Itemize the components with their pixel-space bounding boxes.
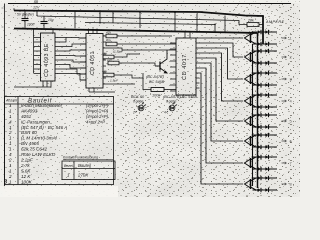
svg-text:1: 1 xyxy=(9,179,12,184)
svg-text:(4×pol·2×P): (4×pol·2×P) xyxy=(86,103,109,108)
svg-text:1: 1 xyxy=(9,109,12,114)
svg-text:6 gelbe: 6 gelbe xyxy=(133,100,144,104)
svg-text:(4×pol·2×P): (4×pol·2×P) xyxy=(86,109,109,114)
svg-text:(4×pol·2×P): (4×pol·2×P) xyxy=(86,114,109,119)
svg-text:CD 4017: CD 4017 xyxy=(182,54,188,80)
svg-text:2: 2 xyxy=(8,130,12,135)
svg-text:(BC 547B) BC 546B: (BC 547B) BC 546B xyxy=(163,95,197,99)
svg-text:4×pol 2×P: 4×pol 2×P xyxy=(86,119,105,124)
svg-text:Kontakt/Funkentstörung: Kontakt/Funkentstörung xyxy=(63,156,98,160)
svg-text:12V: 12V xyxy=(33,6,40,10)
svg-text:12 K: 12 K xyxy=(21,174,31,179)
svg-text:AK4093: AK4093 xyxy=(20,109,38,114)
svg-text:47k: 47k xyxy=(106,39,111,43)
svg-text:1: 1 xyxy=(9,163,12,168)
svg-text:270K: 270K xyxy=(77,173,89,178)
svg-text:1: 1 xyxy=(9,141,12,146)
svg-text:4: 4 xyxy=(164,111,166,115)
svg-text:47k: 47k xyxy=(106,31,111,35)
svg-text:62k,75 C642: 62k,75 C642 xyxy=(21,147,47,152)
svg-text:Bezei.: Bezei. xyxy=(64,164,74,168)
svg-text:(1,5)µF: (1,5)µF xyxy=(113,50,124,54)
svg-text:BN 4505: BN 4505 xyxy=(21,141,39,146)
svg-text:5,6K: 5,6K xyxy=(21,168,31,173)
svg-text:10µ: 10µ xyxy=(48,18,54,22)
svg-text:56k: 56k xyxy=(102,52,107,56)
svg-text:1: 1 xyxy=(9,125,12,130)
svg-text:Bauteil: Bauteil xyxy=(78,163,92,168)
svg-text:5V (Regler): 5V (Regler) xyxy=(17,12,34,16)
svg-text:2: 2 xyxy=(132,111,135,115)
svg-text:100n: 100n xyxy=(27,23,35,27)
svg-text:1,5µF: 1,5µF xyxy=(110,79,119,83)
svg-text:4051: 4051 xyxy=(21,114,32,119)
svg-text:1: 1 xyxy=(9,136,12,141)
svg-text:47k: 47k xyxy=(102,70,107,74)
svg-text:100k: 100k xyxy=(152,94,161,98)
svg-text:8-fach Mäuseklavier: 8-fach Mäuseklavier xyxy=(21,103,63,108)
svg-text:6 gelbe: 6 gelbe xyxy=(166,100,177,104)
svg-text:1: 1 xyxy=(9,168,12,173)
svg-text:2,2µF: 2,2µF xyxy=(20,158,34,163)
svg-text:1: 1 xyxy=(9,103,12,108)
svg-text:100K: 100K xyxy=(21,179,33,184)
svg-text:(BC 547B): (BC 547B) xyxy=(146,75,164,79)
svg-text:22k: 22k xyxy=(106,58,112,62)
svg-text:Anzahl: Anzahl xyxy=(5,99,17,103)
svg-text:3: 3 xyxy=(4,180,7,186)
svg-text:2: 2 xyxy=(8,158,12,163)
svg-text:28k: 28k xyxy=(247,19,254,23)
svg-text:4: 4 xyxy=(9,152,12,157)
svg-text:1: 1 xyxy=(9,147,12,152)
svg-text:(L M 14mV) 3mAl: (L M 14mV) 3mAl xyxy=(21,136,58,141)
svg-text:CD 4051: CD 4051 xyxy=(90,51,96,75)
svg-text:BCK 60: BCK 60 xyxy=(131,95,145,99)
svg-text:2: 2 xyxy=(8,174,12,179)
svg-text:BC 546B: BC 546B xyxy=(149,80,165,84)
svg-text:BSR 60: BSR 60 xyxy=(21,130,37,135)
svg-text:(BC 547 B) · BC 546 A: (BC 547 B) · BC 546 A xyxy=(21,125,67,130)
svg-text:4: 4 xyxy=(9,119,12,124)
svg-text:Rote LAW ELKO: Rote LAW ELKO xyxy=(21,152,56,157)
svg-text:CD 4093 BE: CD 4093 BE xyxy=(44,43,50,77)
svg-text:2,7k: 2,7k xyxy=(20,163,30,168)
svg-text:AMPERE: AMPERE xyxy=(265,20,285,24)
svg-text:IC-Fassungen: IC-Fassungen xyxy=(21,119,50,124)
svg-text:1: 1 xyxy=(9,114,12,119)
